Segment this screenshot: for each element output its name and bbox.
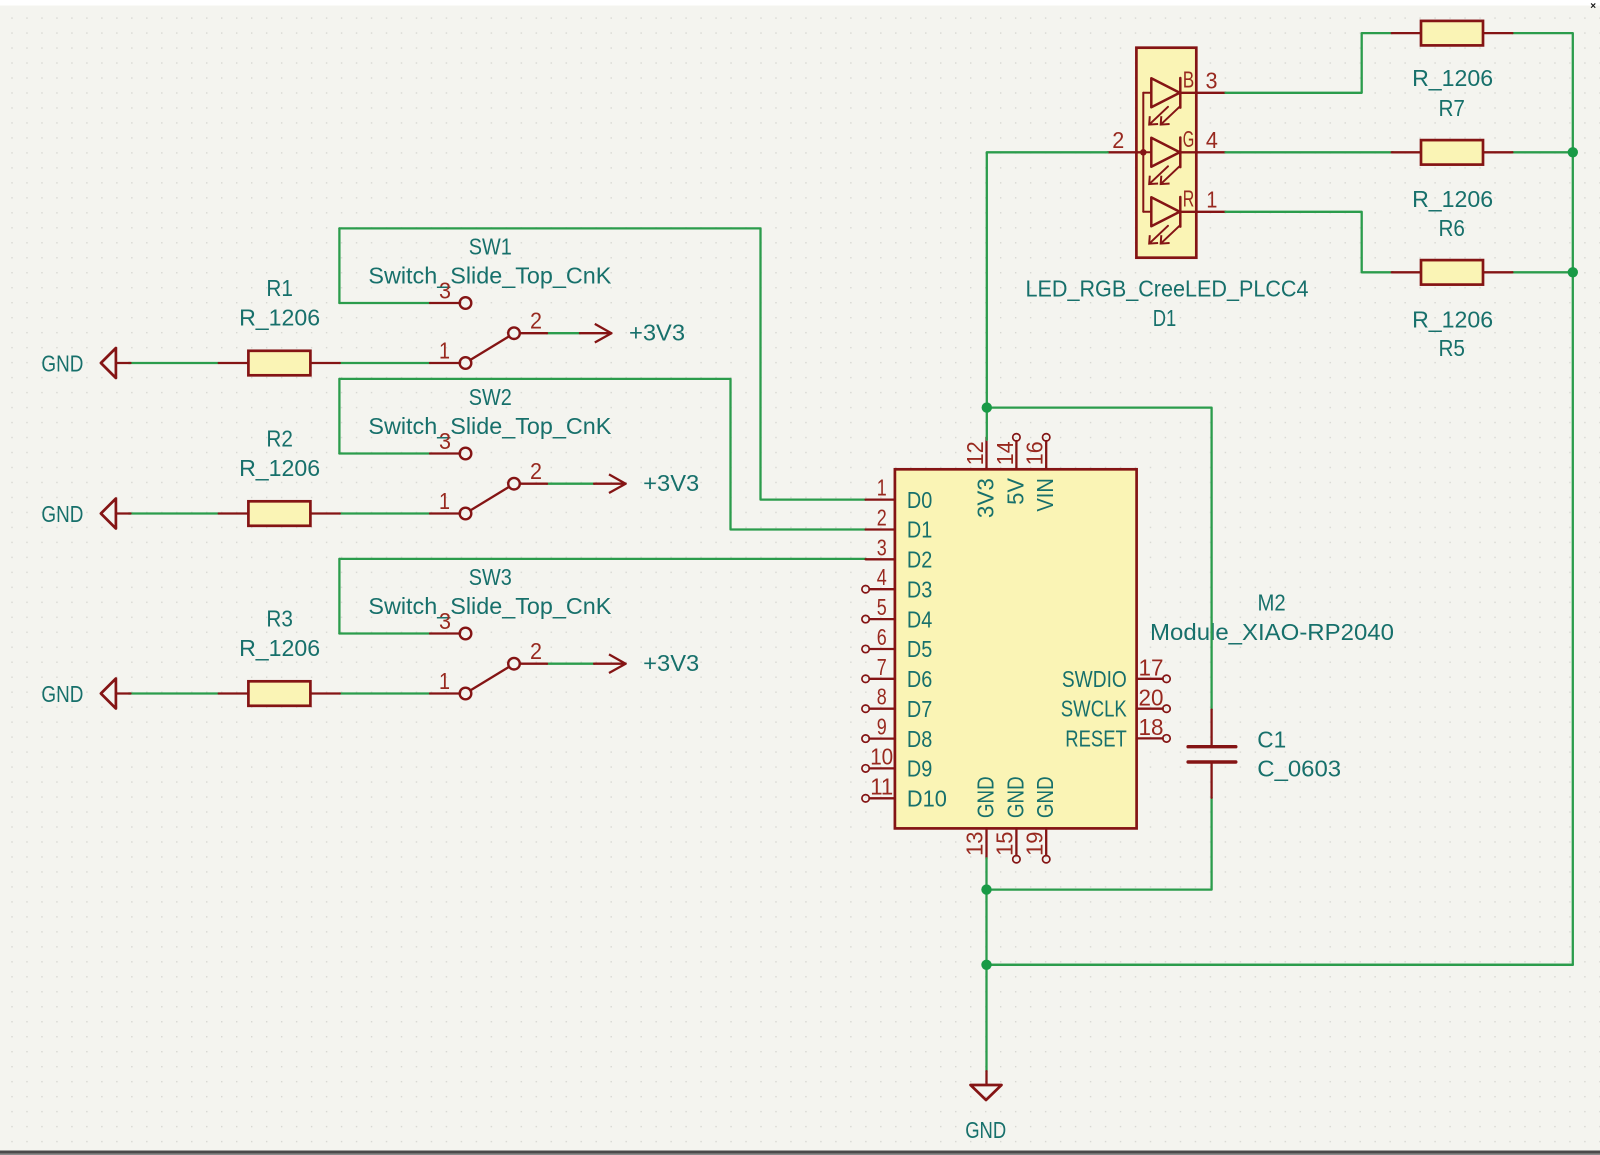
svg-text:14: 14	[992, 441, 1018, 465]
svg-text:D1: D1	[1153, 305, 1177, 331]
svg-text:R_1206: R_1206	[1412, 186, 1493, 212]
svg-text:1: 1	[1206, 187, 1217, 213]
svg-text:+3V3: +3V3	[629, 320, 685, 346]
svg-text:SWCLK: SWCLK	[1061, 696, 1128, 722]
svg-text:Switch_Slide_Top_CnK: Switch_Slide_Top_CnK	[368, 262, 612, 288]
svg-text:×: ×	[1590, 1, 1596, 12]
svg-text:C1: C1	[1257, 727, 1286, 753]
svg-text:M2: M2	[1258, 590, 1286, 616]
svg-text:SW1: SW1	[469, 233, 512, 259]
svg-text:GND: GND	[1002, 776, 1028, 818]
svg-text:R_1206: R_1206	[1412, 65, 1493, 91]
svg-text:R_1206: R_1206	[239, 305, 320, 331]
svg-text:2: 2	[877, 505, 887, 531]
svg-text:Switch_Slide_Top_CnK: Switch_Slide_Top_CnK	[368, 593, 612, 619]
svg-text:R3: R3	[266, 605, 293, 631]
svg-text:1: 1	[439, 338, 450, 364]
svg-text:R2: R2	[266, 425, 293, 451]
svg-text:R7: R7	[1438, 95, 1465, 121]
svg-text:3V3: 3V3	[972, 478, 998, 518]
svg-text:18: 18	[1139, 714, 1164, 740]
svg-text:Module_XIAO-RP2040: Module_XIAO-RP2040	[1150, 619, 1394, 645]
svg-text:D6: D6	[907, 666, 932, 692]
svg-text:D10: D10	[907, 786, 947, 812]
svg-text:2: 2	[530, 308, 542, 334]
svg-text:GND: GND	[41, 501, 83, 527]
svg-text:R5: R5	[1438, 335, 1465, 361]
svg-text:5: 5	[877, 594, 887, 620]
svg-text:2: 2	[1112, 127, 1124, 153]
svg-text:+3V3: +3V3	[643, 470, 699, 496]
svg-text:R6: R6	[1438, 215, 1465, 241]
svg-text:D0: D0	[907, 487, 932, 513]
svg-text:13: 13	[962, 832, 988, 856]
svg-text:5V: 5V	[1002, 477, 1028, 504]
svg-text:9: 9	[877, 714, 887, 740]
svg-text:SW3: SW3	[469, 564, 512, 590]
svg-text:GND: GND	[41, 351, 83, 377]
svg-text:R: R	[1183, 185, 1195, 211]
svg-text:C_0603: C_0603	[1257, 755, 1341, 781]
svg-text:15: 15	[992, 832, 1018, 856]
svg-text:3: 3	[877, 534, 887, 560]
svg-text:3: 3	[439, 278, 451, 304]
svg-text:G: G	[1183, 126, 1195, 152]
svg-text:D9: D9	[907, 756, 932, 782]
svg-text:D7: D7	[907, 696, 932, 722]
svg-text:2: 2	[530, 638, 542, 664]
svg-text:2: 2	[530, 458, 542, 484]
svg-text:RESET: RESET	[1065, 725, 1127, 751]
svg-text:8: 8	[877, 684, 887, 710]
svg-text:D2: D2	[907, 547, 932, 573]
svg-text:D1: D1	[907, 517, 932, 543]
svg-text:20: 20	[1139, 685, 1164, 711]
svg-text:1: 1	[439, 668, 450, 694]
svg-text:GND: GND	[965, 1117, 1006, 1143]
svg-text:D8: D8	[907, 726, 932, 752]
svg-text:Switch_Slide_Top_CnK: Switch_Slide_Top_CnK	[368, 413, 612, 439]
svg-text:D4: D4	[907, 606, 933, 632]
svg-text:GND: GND	[1032, 776, 1058, 818]
svg-text:11: 11	[870, 773, 893, 799]
svg-text:VIN: VIN	[1032, 478, 1058, 512]
svg-text:1: 1	[439, 488, 450, 514]
svg-text:R_1206: R_1206	[239, 455, 320, 481]
svg-text:4: 4	[1206, 127, 1218, 153]
svg-text:GND: GND	[972, 776, 998, 818]
svg-text:7: 7	[877, 654, 887, 680]
svg-text:B: B	[1183, 66, 1195, 92]
svg-text:16: 16	[1022, 441, 1048, 465]
svg-text:R1: R1	[266, 275, 293, 301]
svg-text:3: 3	[1206, 67, 1218, 93]
svg-text:R_1206: R_1206	[239, 635, 320, 661]
svg-text:12: 12	[962, 441, 988, 465]
svg-text:LED_RGB_CreeLED_PLCC4: LED_RGB_CreeLED_PLCC4	[1026, 275, 1309, 301]
svg-text:SW2: SW2	[469, 384, 512, 410]
svg-text:1: 1	[877, 475, 887, 501]
svg-text:+3V3: +3V3	[643, 650, 699, 676]
svg-text:R_1206: R_1206	[1412, 307, 1493, 333]
svg-text:19: 19	[1021, 832, 1047, 856]
svg-text:10: 10	[870, 743, 893, 769]
svg-text:D3: D3	[907, 576, 932, 602]
svg-text:3: 3	[439, 608, 451, 634]
svg-text:SWDIO: SWDIO	[1062, 666, 1127, 692]
svg-text:17: 17	[1139, 655, 1164, 681]
svg-text:3: 3	[439, 428, 451, 454]
svg-text:4: 4	[877, 564, 887, 590]
svg-text:D5: D5	[907, 636, 932, 662]
svg-text:6: 6	[877, 624, 887, 650]
svg-text:GND: GND	[41, 681, 83, 707]
